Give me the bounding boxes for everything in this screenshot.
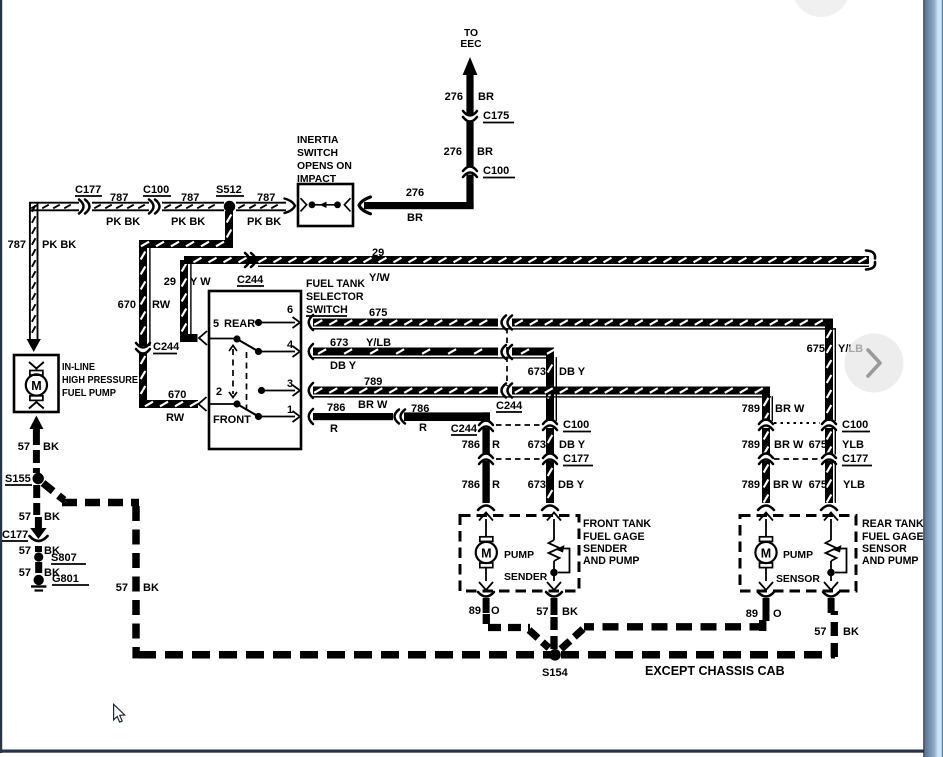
wire 670 RW (S512 to C244) xyxy=(118,211,233,346)
svg-text:YLB: YLB xyxy=(842,439,864,451)
svg-text:BR W: BR W xyxy=(773,479,803,491)
svg-text:REAR TANK: REAR TANK xyxy=(862,518,924,530)
svg-text:REAR: REAR xyxy=(224,318,255,330)
svg-text:787: 787 xyxy=(181,192,199,204)
in-line high pressure fuel pump box xyxy=(14,355,138,412)
svg-text:DB Y: DB Y xyxy=(559,366,586,378)
svg-text:O: O xyxy=(773,608,782,620)
wire 675 YLB (C100 to C177) xyxy=(809,428,864,455)
connector C100 (673 DB Y) xyxy=(496,419,591,432)
svg-text:673: 673 xyxy=(528,366,546,378)
selector switch pump pole (pin 2, FRONT) xyxy=(209,386,262,426)
svg-text:786: 786 xyxy=(411,403,429,415)
svg-text:C177: C177 xyxy=(842,453,868,465)
svg-text:AND PUMP: AND PUMP xyxy=(862,555,919,567)
svg-text:M: M xyxy=(761,547,771,561)
svg-text:FRONT: FRONT xyxy=(213,414,251,426)
connector C177 (787 PK BK) xyxy=(75,184,102,214)
svg-text:276: 276 xyxy=(445,91,463,103)
svg-text:57: 57 xyxy=(18,441,30,453)
svg-text:276: 276 xyxy=(444,146,462,158)
svg-text:SENSOR: SENSOR xyxy=(862,543,907,555)
wire 57 BK (S155 branch to S154 ground bus) xyxy=(43,483,552,658)
svg-text:DB Y: DB Y xyxy=(558,479,585,491)
svg-text:R: R xyxy=(330,423,338,435)
svg-text:C177: C177 xyxy=(75,184,101,196)
svg-text:29: 29 xyxy=(164,276,176,288)
wire 787 PK BK (down to in-line fuel pump) xyxy=(8,202,79,352)
svg-text:673: 673 xyxy=(330,337,348,349)
wire 29 Y/W (C244 to right) xyxy=(184,247,875,284)
svg-text:675: 675 xyxy=(809,439,827,451)
svg-text:787: 787 xyxy=(110,192,128,204)
wire 673 DB Y (C100 to C177) xyxy=(528,428,586,455)
svg-text:29: 29 xyxy=(372,247,384,259)
svg-text:C100: C100 xyxy=(143,184,169,196)
svg-text:FUEL TANK: FUEL TANK xyxy=(306,278,365,290)
wire 57 BK (fuel pump to S155) xyxy=(18,416,59,474)
svg-text:BR: BR xyxy=(478,91,494,103)
wire 675 Y/LB (selector pin 6 to C244) xyxy=(309,307,498,349)
svg-text:C100: C100 xyxy=(563,419,589,431)
svg-text:EEC: EEC xyxy=(460,39,482,50)
wire 276 BR (inertia switch to C100) xyxy=(359,175,474,225)
wire 786 R (selector pin 1 to in-line connector) xyxy=(309,402,393,435)
connector C175 xyxy=(463,110,514,123)
front tank fuel gage sender and pump box xyxy=(460,516,651,592)
wire 787 PK BK (S512 to inertia switch) xyxy=(236,192,295,228)
svg-text:O: O xyxy=(491,605,500,617)
svg-text:FUEL GAGE: FUEL GAGE xyxy=(862,531,924,543)
wire 57 BK (C177 to S807) xyxy=(19,545,60,557)
svg-text:M: M xyxy=(31,379,41,393)
svg-text:670: 670 xyxy=(168,389,186,401)
svg-text:PK BK: PK BK xyxy=(171,216,205,228)
wire 57 BK (S155 to C177) xyxy=(19,485,60,539)
svg-text:FUEL GAGE: FUEL GAGE xyxy=(583,531,645,543)
svg-text:C244: C244 xyxy=(237,274,264,286)
svg-text:PUMP: PUMP xyxy=(783,550,813,561)
wire 675 YLB (C177 to rear tank) xyxy=(809,461,865,510)
node TO EEC xyxy=(460,28,482,50)
wire 89 O (S154 branch to rear pump) xyxy=(561,620,766,649)
wire 57 BK (S807 to G801) xyxy=(19,562,60,579)
connector C177 (57 BK) xyxy=(2,529,48,541)
svg-text:C177: C177 xyxy=(2,529,28,541)
svg-text:PUMP: PUMP xyxy=(504,550,534,561)
svg-text:3: 3 xyxy=(287,378,293,390)
wire 675 Y/LB (C244 to C100) xyxy=(313,319,863,422)
rear tank fuel pump motor M3 xyxy=(755,513,813,591)
fuel tank selector switch label xyxy=(306,278,365,316)
inertia switch contacts xyxy=(301,198,351,211)
wire 787 PK BK (C177 to C100) xyxy=(92,192,149,228)
svg-text:6: 6 xyxy=(287,304,293,316)
in-line fuel pump motor M1 xyxy=(26,362,47,409)
svg-text:SENSOR: SENSOR xyxy=(776,574,820,585)
svg-text:57: 57 xyxy=(814,626,826,638)
svg-text:786: 786 xyxy=(462,439,480,451)
wire 29 Y W (selector switch feed) xyxy=(164,260,211,345)
connector C244 (670 RW) xyxy=(136,341,180,354)
connector (786 R in-line) xyxy=(395,410,406,424)
svg-text:G801: G801 xyxy=(52,573,79,585)
svg-text:C177: C177 xyxy=(563,453,589,465)
svg-text:TO: TO xyxy=(464,28,478,39)
inertia switch label xyxy=(297,135,352,185)
connector C244 (675/673/789 column) xyxy=(496,316,523,413)
svg-text:BR: BR xyxy=(407,212,423,224)
selector switch pin 3 xyxy=(258,378,300,396)
svg-text:BR W: BR W xyxy=(774,439,804,451)
ground G801 xyxy=(31,573,89,591)
svg-text:786: 786 xyxy=(327,402,345,414)
svg-text:789: 789 xyxy=(742,403,760,415)
wire 789 BR W (selector pin 3 to C244) xyxy=(309,376,498,411)
svg-text:SELECTOR: SELECTOR xyxy=(306,291,364,303)
splice S512 xyxy=(216,184,244,212)
svg-text:PK BK: PK BK xyxy=(247,216,281,228)
svg-text:675: 675 xyxy=(809,479,827,491)
svg-text:IN-LINE: IN-LINE xyxy=(62,362,95,373)
svg-text:C100: C100 xyxy=(842,419,868,431)
wire 57 BK (front sender to S154) xyxy=(536,592,578,650)
svg-text:SWITCH: SWITCH xyxy=(297,148,338,159)
svg-text:BK: BK xyxy=(843,626,859,638)
connector C100 (675 YLB) xyxy=(774,419,870,432)
wire 276 BR (C100 to C175) xyxy=(444,121,493,168)
svg-text:S512: S512 xyxy=(216,184,242,196)
svg-text:BK: BK xyxy=(143,582,159,594)
svg-text:BR: BR xyxy=(477,146,493,158)
connector C177 (786 R) xyxy=(479,454,493,465)
svg-text:DB Y: DB Y xyxy=(559,439,586,451)
svg-text:S154: S154 xyxy=(542,667,569,679)
wire 673 DB Y (selector pin 4 to C244) xyxy=(309,337,498,372)
svg-text:M: M xyxy=(481,547,491,561)
svg-text:RW: RW xyxy=(152,299,171,311)
connector C177 (789 BR W) xyxy=(759,454,773,465)
svg-text:786: 786 xyxy=(462,479,480,491)
svg-text:789: 789 xyxy=(742,439,760,451)
svg-text:4: 4 xyxy=(287,339,294,351)
wire 89 O (rear pump ground) xyxy=(746,592,782,621)
connector C244 (786 R) xyxy=(451,421,493,436)
svg-text:89: 89 xyxy=(469,605,481,617)
svg-text:AND PUMP: AND PUMP xyxy=(583,555,640,567)
svg-text:S807: S807 xyxy=(51,552,77,564)
svg-text:673: 673 xyxy=(528,439,546,451)
rear tank fuel gage sensor and pump box xyxy=(740,516,924,592)
svg-text:R: R xyxy=(419,422,427,434)
svg-text:FUEL PUMP: FUEL PUMP xyxy=(62,388,116,399)
front tank fuel pump motor M2 xyxy=(476,513,534,591)
wire 789 BR W (C177 to rear tank) xyxy=(742,461,803,510)
connector C177 (675 YLB) xyxy=(774,453,872,466)
svg-text:HIGH PRESSURE: HIGH PRESSURE xyxy=(62,375,138,386)
svg-text:789: 789 xyxy=(742,479,760,491)
svg-text:C244: C244 xyxy=(153,341,180,353)
selector switch pin 1 xyxy=(259,404,301,422)
connector C100 (789 BR W) xyxy=(759,420,773,431)
svg-text:RW: RW xyxy=(166,412,185,424)
selector switch pin 6 (REAR) xyxy=(213,304,300,330)
svg-text:BR W: BR W xyxy=(358,399,388,411)
svg-text:SENDER: SENDER xyxy=(583,543,627,555)
svg-text:276: 276 xyxy=(406,187,424,199)
svg-text:R: R xyxy=(492,439,500,451)
wire 789 BR W (C244 to C100) xyxy=(313,387,805,422)
wire 276 BR (C175 to EEC) xyxy=(445,57,494,115)
svg-text:INERTIA: INERTIA xyxy=(297,135,339,146)
selector switch pin 4 xyxy=(259,339,301,357)
svg-text:C244: C244 xyxy=(496,400,523,412)
svg-text:89: 89 xyxy=(746,608,758,620)
wire 89 O (front pump to S154) xyxy=(469,592,549,648)
svg-text:BK: BK xyxy=(44,511,60,523)
svg-text:57: 57 xyxy=(536,606,548,618)
svg-text:PK BK: PK BK xyxy=(106,216,140,228)
splice S155 xyxy=(5,473,44,485)
svg-text:Y/LB: Y/LB xyxy=(366,337,391,349)
svg-text:789: 789 xyxy=(364,376,382,388)
svg-text:675: 675 xyxy=(369,307,387,319)
wire 786 R (C177 to front tank) xyxy=(462,461,500,510)
selector switch linkage (dashed) xyxy=(229,346,247,412)
wire 789 BR W (C100 to C177) xyxy=(742,428,804,455)
svg-text:SENDER: SENDER xyxy=(504,572,548,583)
splice S154 xyxy=(542,649,569,679)
svg-text:673: 673 xyxy=(528,479,546,491)
rear tank fuel gage sensor R2 xyxy=(776,513,847,591)
svg-text:BK: BK xyxy=(43,441,59,453)
svg-text:787: 787 xyxy=(8,239,26,251)
svg-text:DB Y: DB Y xyxy=(330,360,357,372)
svg-text:EXCEPT CHASSIS CAB: EXCEPT CHASSIS CAB xyxy=(645,664,785,678)
svg-text:Y W: Y W xyxy=(190,276,211,288)
connector C100 (276 BR) xyxy=(463,165,515,178)
svg-text:2: 2 xyxy=(216,386,222,398)
wire 786 R (C244 to C177) xyxy=(462,428,500,455)
wire 57 BK (rear sensor ground) xyxy=(814,592,859,638)
svg-text:787: 787 xyxy=(257,192,275,204)
fuel tank selector switch S2 box xyxy=(209,291,301,449)
wire 670 RW (C244 to selector switch pin 2) xyxy=(139,353,207,425)
svg-text:C100: C100 xyxy=(483,165,509,177)
connector C244 (29 Y/W) xyxy=(237,253,264,286)
svg-text:C175: C175 xyxy=(483,110,509,122)
wire 673 DB Y (C177 to front tank) xyxy=(528,461,585,510)
svg-text:57: 57 xyxy=(116,582,128,594)
svg-text:BK: BK xyxy=(562,606,578,618)
wire 57 BK ground bus (S154 to rear) xyxy=(561,611,835,657)
svg-text:670: 670 xyxy=(118,299,136,311)
svg-text:C244: C244 xyxy=(451,423,478,435)
svg-text:OPENS ON: OPENS ON xyxy=(297,161,352,172)
wire 786 R (connector to C244) xyxy=(404,403,490,434)
svg-text:S155: S155 xyxy=(5,473,31,485)
splice S807 xyxy=(34,552,86,564)
svg-text:57: 57 xyxy=(19,545,31,557)
svg-text:PK BK: PK BK xyxy=(42,239,76,251)
svg-text:YLB: YLB xyxy=(843,479,865,491)
connector C100 (787 PK BK) xyxy=(143,184,171,214)
page next button overlay xyxy=(845,334,904,393)
svg-text:Y/W: Y/W xyxy=(369,272,390,284)
svg-text:FRONT TANK: FRONT TANK xyxy=(583,518,651,530)
svg-text:1: 1 xyxy=(287,404,293,416)
svg-text:5: 5 xyxy=(213,318,219,330)
selector switch gauge pole (pin 5) xyxy=(209,335,262,355)
connector C177 (673 DB Y) xyxy=(496,453,593,466)
svg-text:57: 57 xyxy=(19,511,31,523)
svg-text:R: R xyxy=(492,479,500,491)
svg-text:675: 675 xyxy=(807,343,825,355)
inertia switch S1 box xyxy=(298,184,353,226)
svg-text:57: 57 xyxy=(19,567,31,579)
svg-text:BR W: BR W xyxy=(775,403,805,415)
front tank fuel gage sender R1 xyxy=(504,513,570,591)
wire 673 DB Y (C244 to C100) xyxy=(313,348,586,422)
wire 787 PK BK (C100 to S512) xyxy=(162,192,224,228)
